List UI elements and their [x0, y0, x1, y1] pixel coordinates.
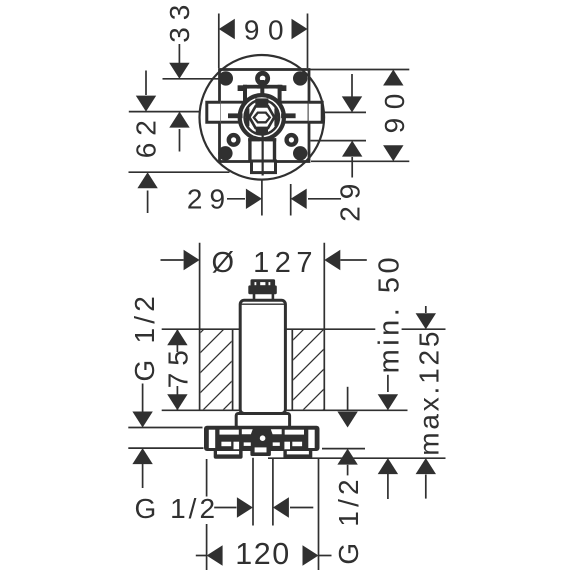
svg-text:G 1/2: G 1/2: [129, 292, 160, 381]
svg-text:min. 50: min. 50: [373, 254, 405, 374]
svg-text:62: 62: [130, 113, 161, 158]
svg-text:90: 90: [379, 85, 410, 133]
svg-text:29: 29: [187, 184, 232, 215]
svg-text:G 1/2: G 1/2: [135, 493, 218, 524]
svg-text:G 1/2: G 1/2: [333, 475, 364, 564]
svg-text:75: 75: [162, 343, 193, 388]
svg-text:90: 90: [244, 15, 292, 46]
svg-text:33: 33: [164, 0, 195, 43]
svg-text:29: 29: [335, 177, 366, 222]
svg-text:120: 120: [235, 537, 290, 570]
svg-text:Ø 127: Ø 127: [212, 247, 319, 279]
svg-text:max.125: max.125: [414, 329, 445, 456]
